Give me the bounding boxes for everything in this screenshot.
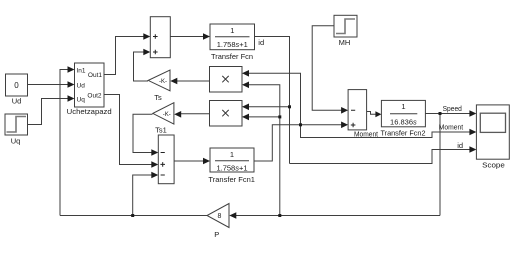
wire: feedback from bottom line up to In1 xyxy=(60,70,69,216)
gain triangle P xyxy=(207,204,229,228)
wire: product2 output to Ts1 gain input xyxy=(180,113,210,115)
sum block Moment (- +) xyxy=(348,90,367,130)
sum block S1 (top, + +) xyxy=(150,17,170,58)
arrow into Moment sum plus xyxy=(341,122,348,129)
step source block Uq xyxy=(5,114,28,135)
svg-text:-K-: -K- xyxy=(163,112,171,118)
arrow into scope id input xyxy=(469,146,476,153)
svg-text:Uq: Uq xyxy=(77,96,86,103)
arrowheads xyxy=(68,33,477,219)
wire: bottom speed line from x440 to P gain input xyxy=(235,215,440,217)
transfer fcn block Transfer Fcn xyxy=(210,24,255,50)
node: id to product2 input1 xyxy=(288,105,291,108)
svg-text:1.758s+1: 1.758s+1 xyxy=(216,164,247,173)
svg-text:MH: MH xyxy=(339,38,351,47)
node: feedback to sum2 input3 xyxy=(131,214,134,217)
wire: Ud constant to subsystem Ud port xyxy=(28,84,69,86)
arrow into Transfer Fcn2 xyxy=(375,111,381,117)
svg-text:id: id xyxy=(258,38,264,47)
wire: torque branch up to product1 input1 xyxy=(248,73,301,125)
wire: speed branch to product2 input2 xyxy=(248,116,280,118)
svg-text:0: 0 xyxy=(14,81,19,90)
wire: bottom feedback riser to sum2 input3 xyxy=(133,175,153,216)
node: torque junction xyxy=(299,123,302,126)
arrow into subsystem Ud xyxy=(68,81,75,88)
svg-text:Ud: Ud xyxy=(77,82,86,89)
svg-text:Moment: Moment xyxy=(439,123,464,132)
wire: speed branch down at x440 to bottom line xyxy=(439,114,441,216)
wire: sum2 output to Transfer Fcn1 xyxy=(174,160,204,162)
arrow into Transfer Fcn1 xyxy=(203,158,210,165)
wire: Transfer Fcn1 output right, up, torque line to Moment sum plus input xyxy=(254,125,343,161)
wire: Moment sum output jog to Transfer Fcn2 xyxy=(367,112,376,115)
arrow into product2 input2 (pointing left) xyxy=(242,114,249,121)
wire: product1 output to Ts gain input xyxy=(176,80,210,82)
node: speed bottom branch xyxy=(278,214,281,217)
svg-text:Uq: Uq xyxy=(11,137,21,146)
subsystem Uchetzapazd xyxy=(75,63,105,107)
arrow into sum2 input2 xyxy=(151,161,158,168)
wire: id feed to scope, right then up xyxy=(290,150,471,164)
junction dots xyxy=(131,105,441,217)
svg-text:Ts: Ts xyxy=(154,93,162,102)
arrow into Transfer Fcn xyxy=(203,33,210,40)
transfer fcn block Transfer Fcn1 xyxy=(210,148,254,172)
wire: id branch to product2 input1 xyxy=(248,106,290,108)
gain triangle Ts xyxy=(148,70,170,91)
svg-text:Speed: Speed xyxy=(443,104,462,113)
node: speed line to scope branch xyxy=(439,112,442,115)
step source block MH (mirrored) xyxy=(334,15,357,37)
svg-text:Ud: Ud xyxy=(12,97,22,106)
arrow into product1 input1 (pointing left) xyxy=(242,70,249,77)
svg-text:Out2: Out2 xyxy=(87,93,101,100)
sum block S2 (left-bottom, - + -) xyxy=(158,135,174,184)
arrow into Moment sum minus xyxy=(341,107,348,114)
arrow into product1 input2 (pointing left) xyxy=(242,82,249,89)
svg-text:1.758s+1: 1.758s+1 xyxy=(217,40,248,49)
svg-text:Uchetzapazd: Uchetzapazd xyxy=(67,107,112,116)
wire: MH output left then down to Moment sum minus input xyxy=(312,26,342,111)
scope block xyxy=(476,105,509,159)
constant block Ud value 0 xyxy=(6,74,28,96)
svg-text:In1: In1 xyxy=(77,68,86,75)
svg-text:Moment: Moment xyxy=(354,129,379,138)
arrow into sum1 input1 xyxy=(143,33,150,40)
arrow into sum2 input1 xyxy=(151,149,158,156)
svg-text:1: 1 xyxy=(230,26,234,35)
svg-text:-K-: -K- xyxy=(159,79,167,85)
Moment sum signs (drawn) xyxy=(351,110,356,127)
sum1 plus signs (drawn) xyxy=(153,34,158,54)
svg-text:Transfer Fcn2: Transfer Fcn2 xyxy=(381,128,426,137)
svg-text:Out1: Out1 xyxy=(88,72,102,79)
arrow into sum1 input2 xyxy=(143,49,150,56)
svg-text:Ts1: Ts1 xyxy=(155,126,167,135)
arrow into subsystem In1 xyxy=(68,66,75,73)
svg-text:Scope: Scope xyxy=(482,161,505,170)
product block X1 (top, mirrored) xyxy=(210,67,243,93)
svg-text:1: 1 xyxy=(401,102,405,111)
wire: Ts gain output left, up, to sum1 input2 xyxy=(134,52,149,81)
wire: Transfer Fcn output id, right then down to id vertical xyxy=(255,37,290,164)
wire: Transfer Fcn2 output speed line to scope xyxy=(426,113,471,115)
arrow into scope Moment input xyxy=(469,129,476,136)
wire: Out2 right, down, to sum2 input2 xyxy=(104,95,153,165)
arrow into subsystem Uq xyxy=(68,95,75,102)
node: speed to product2 input2 xyxy=(278,115,281,118)
wire: sum1 output to Transfer Fcn xyxy=(171,36,205,38)
svg-text:16.836s: 16.836s xyxy=(390,117,417,126)
arrow into Ts gain (pointing left) xyxy=(170,78,177,85)
wire: P gain output left to feedback corner xyxy=(60,215,207,217)
wire: Ts1 gain output left, down, to sum2 input1 xyxy=(133,114,153,152)
svg-text:1: 1 xyxy=(230,150,234,159)
arrow into Ts1 gain (pointing left) xyxy=(174,111,181,118)
arrow into scope Speed input xyxy=(469,110,476,117)
arrow into sum2 input3 xyxy=(151,172,158,179)
product cross X2 (drawn) xyxy=(222,110,228,116)
product block X2 (bottom, mirrored) xyxy=(210,101,243,127)
wire: speed feedback vertical with branches to product inputs xyxy=(248,85,280,216)
svg-text:8: 8 xyxy=(218,213,222,220)
transfer fcn block Transfer Fcn2 xyxy=(381,100,425,126)
wire: Out1 right, up, to sum1 input1 xyxy=(104,37,145,75)
arrow into product2 input1 (pointing left) xyxy=(242,104,249,111)
wire: Uq step out, up, to subsystem Uq port xyxy=(27,99,69,125)
wire: torque branch down, Moment feed to scope xyxy=(301,125,471,138)
gain triangle Ts1 xyxy=(153,103,174,124)
svg-text:P: P xyxy=(214,230,219,239)
svg-text:Transfer Fcn1: Transfer Fcn1 xyxy=(208,175,255,184)
arrow into P gain (pointing left) xyxy=(229,212,236,219)
sum2 signs (drawn) xyxy=(160,153,165,176)
svg-text:id: id xyxy=(457,141,463,150)
svg-text:Transfer Fcn: Transfer Fcn xyxy=(211,52,253,61)
product cross X1 (drawn) xyxy=(222,76,228,82)
